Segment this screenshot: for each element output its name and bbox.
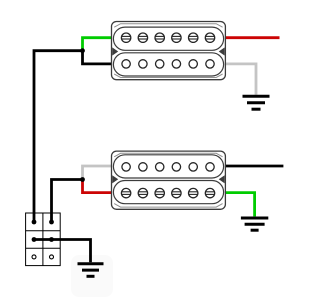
wire: black bus from junction A left and down to switch terminal 1 bbox=[34, 51, 83, 221]
pickup P2 slug pole 4 bbox=[172, 163, 180, 171]
pickup P2 bobbin lower bbox=[113, 155, 223, 178]
ground G1 bbox=[243, 96, 270, 109]
pickup P2 slug pole 1 bbox=[122, 163, 130, 171]
wire: neck pickup green lead (north start) to junction A bbox=[83, 38, 112, 51]
wire: bridge pickup white lead to junction B bbox=[83, 166, 112, 180]
pickup P2 screw pole 3 bbox=[155, 188, 164, 197]
pickup P1 screw pole 3 bbox=[155, 33, 164, 42]
pickup P2 screw pole 5 bbox=[189, 188, 198, 197]
pickup P2 baseplate top lip bbox=[114, 204, 222, 208]
pickup P1 bobbin lower bbox=[113, 53, 223, 76]
junction A bbox=[80, 48, 85, 53]
humbucker pickup P1 (neck) bbox=[112, 22, 226, 80]
pickup P2 screw pole 1 bbox=[121, 188, 130, 197]
pickup P2 left mid wedge bbox=[112, 175, 118, 183]
pickup P2 slug pole 3 bbox=[156, 163, 164, 171]
pickup P2 baseplate bottom lip bbox=[114, 153, 222, 157]
pickup P1 left mid wedge bbox=[112, 47, 118, 55]
humbucker pickup P2 (bridge) bbox=[112, 151, 226, 209]
pickup P1 screw pole 1 bbox=[121, 33, 130, 42]
pickup P1 slug pole 4 bbox=[172, 60, 180, 68]
pickup P1 screw pole 5 bbox=[189, 33, 198, 42]
pickup P1 baseplate bottom lip bbox=[114, 74, 222, 78]
pickup P2 baseplate bbox=[112, 151, 226, 209]
pickup P2 screw pole 6 bbox=[205, 188, 214, 197]
wire: neck pickup white lead to ground G1 bbox=[225, 64, 256, 95]
switch SW1 terminal 1 bbox=[32, 220, 37, 225]
wire: switch common row to ground G3 bbox=[34, 240, 91, 263]
pickup P1 slug pole 3 bbox=[156, 60, 164, 68]
pickup P2 slug pole 2 bbox=[139, 163, 147, 171]
pickup P2 screw pole 4 bbox=[172, 188, 181, 197]
pickup P2 bobbin (slug/screw coil) upper bbox=[113, 181, 223, 204]
pickup P1 bobbin (slug/screw coil) upper bbox=[113, 27, 223, 50]
pickup P1 right mid wedge bbox=[219, 47, 225, 55]
wire: red from junction B down-right into bridge pickup bbox=[83, 180, 112, 193]
switch SW1 terminal 2 bbox=[49, 220, 54, 225]
ground G2 bbox=[241, 218, 268, 230]
pickup P1 slug pole 6 bbox=[206, 60, 214, 68]
switch SW1 terminal 5 (open) bbox=[32, 255, 36, 259]
junction B bbox=[80, 177, 85, 182]
pickup P1 baseplate bbox=[112, 22, 226, 80]
switch SW1 terminal 4 bbox=[49, 237, 54, 242]
switch SW1 terminal 3 bbox=[32, 237, 37, 242]
pickup P2 screw pole 2 bbox=[138, 188, 147, 197]
pickup P1 slug pole 2 bbox=[139, 60, 147, 68]
wire: neck pickup red hot lead stub bbox=[225, 36, 279, 39]
wire: black from junction A down-right into neck pickup (series link) bbox=[83, 51, 112, 64]
pickup P1 slug pole 1 bbox=[122, 60, 130, 68]
wire: bridge pickup green lead to ground G2 bbox=[225, 193, 254, 217]
switch SW1 body bbox=[26, 213, 61, 266]
wire: black from junction B left and down to switch terminal 2 bbox=[52, 180, 83, 221]
pickup P1 slug pole 5 bbox=[189, 60, 197, 68]
pickup P2 slug pole 5 bbox=[189, 163, 197, 171]
faint shadow patch bbox=[71, 255, 113, 297]
pickup P1 screw pole 2 bbox=[138, 33, 147, 42]
pickup P2 slug pole 6 bbox=[206, 163, 214, 171]
pickup P1 baseplate top lip bbox=[114, 24, 222, 28]
pickup P1 screw pole 4 bbox=[172, 33, 181, 42]
pickup P2 right mid wedge bbox=[219, 175, 225, 183]
switch SW1 terminal 6 (open) bbox=[50, 255, 54, 259]
pickup P1 screw pole 6 bbox=[205, 33, 214, 42]
ground G3 bbox=[78, 264, 104, 277]
wire: bridge pickup black lead stub bbox=[225, 165, 283, 168]
